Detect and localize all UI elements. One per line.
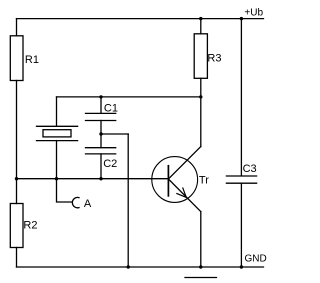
capacitor C3 top plate: [226, 175, 256, 177]
connector A symbol: [72, 197, 79, 207]
node junction mid rail / C2: [99, 177, 102, 180]
wire C1 bottom to midpoint node: [100, 121, 102, 135]
node junction upper rail / C1: [99, 95, 102, 98]
wire crystal top stub: [56, 97, 58, 126]
transistor Tr emitter arrowhead: [176, 187, 186, 197]
svg-text:Tr: Tr: [199, 175, 209, 187]
svg-text:C1: C1: [104, 102, 118, 114]
node junction ground rail / midpoint column: [127, 265, 130, 268]
svg-text:R1: R1: [25, 54, 39, 66]
resistor R3: [194, 34, 207, 79]
node junction ground rail / C3: [240, 265, 243, 268]
wire R2 bottom to ground rail: [16, 248, 18, 268]
svg-text:C3: C3: [243, 163, 257, 175]
wire crystal bottom stub: [56, 141, 58, 179]
svg-text:GND: GND: [245, 254, 267, 265]
node junction top rail / C3: [240, 17, 243, 20]
wire left column top stub to R1: [16, 19, 18, 36]
wire bottom ground rail: [17, 266, 264, 268]
node junction mid rail / R1-R2: [15, 177, 18, 180]
capacitor C2 bottom plate: [86, 153, 116, 155]
wire midpoint node to right column: [101, 133, 128, 135]
wire R1 bottom to mid rail to R2 top: [16, 81, 18, 204]
svg-text:C2: C2: [103, 158, 117, 170]
svg-text:R3: R3: [207, 52, 221, 64]
resistor R1: [10, 36, 23, 81]
wire emitter vertical to ground rail: [200, 212, 202, 267]
wire collector vertical: [200, 97, 202, 147]
wire collector diagonal: [168, 147, 200, 179]
node junction mid rail / crystal: [55, 177, 58, 180]
capacitor C3 bottom plate: [226, 182, 256, 184]
wire C2 top stub: [100, 134, 102, 148]
crystal Q1 bottom plate: [37, 140, 78, 142]
crystal Q1 top plate: [37, 125, 78, 127]
wire R3 top stub: [200, 19, 202, 34]
crystal Q1 body: [43, 130, 71, 137]
wire mid rail (base rail): [17, 178, 169, 180]
wire top supply rail +Ub: [17, 18, 264, 20]
wire right column down to ground rail: [127, 134, 129, 267]
wire upper node rail: [57, 96, 201, 98]
ground symbol: [185, 277, 217, 279]
wire C1 top stub: [100, 97, 102, 113]
wire C3 bottom stub: [240, 183, 242, 267]
node junction ground rail / emitter: [199, 265, 202, 268]
capacitor C2 top plate: [86, 147, 116, 149]
node junction top rail / R3: [199, 17, 202, 20]
wire C3 top stub: [240, 19, 242, 176]
node junction C1-C2 midpoint: [99, 132, 102, 135]
svg-text:R2: R2: [23, 220, 37, 232]
svg-text:A: A: [84, 198, 92, 210]
wire A tap drop: [57, 179, 73, 202]
capacitor C1 bottom plate: [86, 120, 116, 122]
svg-text:+Ub: +Ub: [244, 8, 263, 19]
transistor Tr body circle: [152, 157, 198, 203]
wire emitter diagonal: [168, 179, 200, 212]
resistor R2: [10, 204, 23, 248]
capacitor C1 top plate: [86, 112, 116, 114]
wire R3 bottom to collector node: [200, 78, 202, 97]
wire C2 bottom stub: [100, 154, 102, 179]
transistor Tr base bar: [167, 165, 169, 197]
node junction upper rail / collector: [199, 95, 202, 98]
